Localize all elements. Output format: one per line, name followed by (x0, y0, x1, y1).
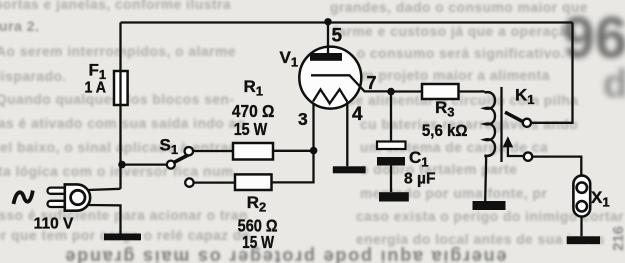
svg-text:4: 4 (352, 104, 363, 125)
svg-text:470 Ω: 470 Ω (232, 101, 275, 121)
node R1 junction (310, 147, 318, 155)
wire top bus (121, 21, 573, 23)
svg-text:8 µF: 8 µF (404, 171, 436, 188)
svg-text:V1: V1 (280, 48, 299, 70)
wire coil to ground (485, 155, 487, 201)
connector X1 pin upper (577, 182, 587, 192)
plug body (65, 184, 90, 210)
tube V1 plate (310, 53, 342, 61)
node plug top join (88, 189, 121, 190)
relay K1 armature arrow (503, 136, 514, 147)
svg-text:R3: R3 (435, 98, 455, 120)
capacitor C1 bottom lead (390, 166, 392, 193)
node pin7 R3 C1 (387, 88, 395, 96)
svg-text:15 W: 15 W (242, 232, 274, 252)
wire node to R3 (391, 90, 422, 92)
relay K1 armature arrow tail (508, 146, 524, 157)
capacitor C1 plus plate (377, 142, 406, 150)
svg-text:7: 7 (367, 73, 377, 93)
faded bleed-through magazine text (decorative) (0, 0, 231, 12)
capacitor C1 top lead (390, 92, 392, 142)
capacitor C1 minus plate (377, 157, 405, 166)
connector X1 body (573, 176, 590, 217)
tube V1 cathode and pin 7 lead (311, 75, 391, 91)
resistor R1 (233, 143, 273, 160)
relay K1 contact lower (524, 152, 532, 160)
ground tube filament (333, 166, 366, 173)
wire plug bottom to ground (88, 205, 121, 234)
wire R1 to node (273, 150, 314, 152)
wire contact lower to X1 (532, 157, 581, 176)
wire through fuse (119, 72, 121, 104)
node S1 branch (118, 161, 126, 169)
switch S1 arm (174, 154, 190, 162)
ground C1 (379, 192, 409, 201)
relay K1 coil (485, 92, 496, 156)
tube V1 filament (313, 89, 347, 103)
wire R3 to relay coil (459, 91, 485, 92)
connector X1 pin lower (577, 201, 587, 211)
relay K1 contact arm (505, 112, 523, 122)
ground mains (104, 234, 141, 241)
svg-text:R2: R2 (247, 193, 267, 215)
ground X1 (567, 236, 600, 244)
tube V1 envelope (299, 47, 361, 109)
switch S1 pole (167, 161, 175, 169)
wire pin 3 lead (312, 101, 314, 151)
wire left vertical (mains hot side) (119, 23, 121, 189)
svg-text:110 V: 110 V (34, 216, 74, 233)
relay K1 contact upper (523, 119, 531, 127)
resistor R2 (235, 174, 272, 190)
wire S1 branch (122, 163, 167, 165)
wire contact upper to top bus (531, 23, 573, 123)
svg-text:R1: R1 (244, 77, 264, 99)
plug prong lower (48, 201, 67, 207)
svg-text:X1: X1 (591, 188, 610, 210)
fuse F1 (114, 71, 128, 105)
tube V1 plate lead pin 5 (327, 23, 329, 57)
switch S1 throw lower (185, 178, 193, 186)
resistor R3 (422, 84, 459, 99)
plug body circle (71, 190, 85, 204)
node plate bus (324, 18, 331, 25)
wire R2 to node (272, 151, 314, 183)
relay K1 core line (500, 87, 502, 162)
ground relay coil (473, 201, 506, 210)
svg-text:3: 3 (298, 109, 308, 129)
svg-text:15 W: 15 W (234, 119, 268, 139)
AC source symbol (14, 191, 33, 205)
svg-text:5,6 kΩ: 5,6 kΩ (422, 122, 468, 140)
wire X1 to ground (580, 217, 582, 237)
wire S1 to R2 (194, 181, 235, 183)
svg-text:S1: S1 (160, 136, 179, 158)
wire S1 to R1 (193, 150, 233, 152)
svg-text:K1: K1 (515, 86, 535, 108)
plug prong upper (48, 188, 67, 194)
svg-text:1 A: 1 A (85, 80, 107, 97)
svg-text:5: 5 (332, 26, 343, 47)
svg-text:C1: C1 (409, 148, 429, 170)
switch S1 throw upper (185, 147, 193, 155)
wire pin 4 lead (346, 102, 348, 167)
